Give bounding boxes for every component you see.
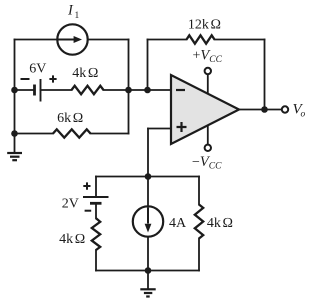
svg-text:6V: 6V xyxy=(29,62,46,77)
wire plus input vertical down xyxy=(147,129,149,271)
svg-text:6kΩ: 6kΩ xyxy=(57,111,83,126)
+Vcc terminal xyxy=(205,68,211,94)
svg-text:o: o xyxy=(301,110,306,120)
node minus row a xyxy=(125,87,132,94)
battery 6V plates xyxy=(35,79,41,102)
ground bottom xyxy=(140,271,155,297)
battery 2V minus sign xyxy=(85,210,92,212)
svg-text:4A: 4A xyxy=(169,216,187,231)
wire feedback right vertical xyxy=(264,40,266,110)
wire feedback row right segment xyxy=(215,39,265,41)
terminal Vo xyxy=(282,106,288,112)
wire op-amp output xyxy=(239,109,282,111)
wire 2V branch upper stub xyxy=(95,177,97,197)
wire bottom section top row xyxy=(96,176,199,178)
wire left vertical xyxy=(14,40,16,134)
wire 2V branch mid stub xyxy=(95,205,97,219)
node 6k row left xyxy=(11,130,18,137)
wire vertical x=128.5 xyxy=(128,40,130,134)
current source 4A xyxy=(133,206,163,236)
wire 2V branch lower stub xyxy=(95,250,97,271)
node output xyxy=(261,106,268,113)
wire top-left row xyxy=(15,39,129,41)
resistor 4k (bottom-right, vertical) xyxy=(195,205,203,239)
svg-text:1: 1 xyxy=(75,11,80,21)
resistor 12k xyxy=(187,35,215,43)
svg-text:4kΩ: 4kΩ xyxy=(59,232,85,247)
wire plus input row xyxy=(148,128,171,130)
wire battery row left segment xyxy=(15,89,34,91)
wire battery row mid segment xyxy=(41,89,72,91)
svg-text:2V: 2V xyxy=(62,197,79,212)
resistor 4k (top, horizontal) xyxy=(72,86,104,94)
op-amp U1 xyxy=(171,75,239,144)
wire 6k row left segment xyxy=(15,133,54,135)
svg-text:4kΩ: 4kΩ xyxy=(207,216,233,231)
svg-text:12kΩ: 12kΩ xyxy=(188,17,221,32)
battery 6V plus sign xyxy=(49,75,56,82)
node minus row b xyxy=(144,87,151,94)
node minus row left xyxy=(11,87,18,94)
wire vertical x=147.5 (feedback to minus node) xyxy=(147,40,149,91)
node bottom top row xyxy=(145,173,152,180)
wire 6k row right segment xyxy=(91,133,129,135)
node bottom row xyxy=(145,267,152,274)
wire battery row to op-amp minus input xyxy=(104,89,172,91)
resistor 4k (bottom-left, vertical) xyxy=(92,218,100,250)
wire right branch upper stub xyxy=(198,177,200,205)
ground left xyxy=(7,134,22,161)
svg-text:4kΩ: 4kΩ xyxy=(72,66,98,81)
battery 2V plates xyxy=(83,197,109,203)
wire bottom row xyxy=(96,270,199,272)
wire feedback row left segment xyxy=(148,39,187,41)
current source I1 xyxy=(57,24,87,54)
wire right branch lower stub xyxy=(198,239,200,271)
resistor 6k xyxy=(53,129,91,137)
battery 2V plus sign xyxy=(83,182,90,189)
-Vcc terminal xyxy=(205,125,211,151)
battery 6V minus sign xyxy=(21,78,30,80)
